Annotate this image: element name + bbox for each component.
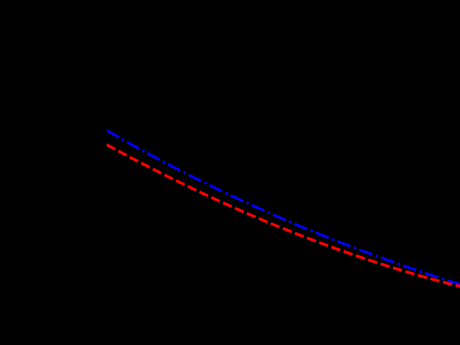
red dashed curve	[107, 145, 460, 287]
blue dash-dot curve	[107, 130, 460, 284]
